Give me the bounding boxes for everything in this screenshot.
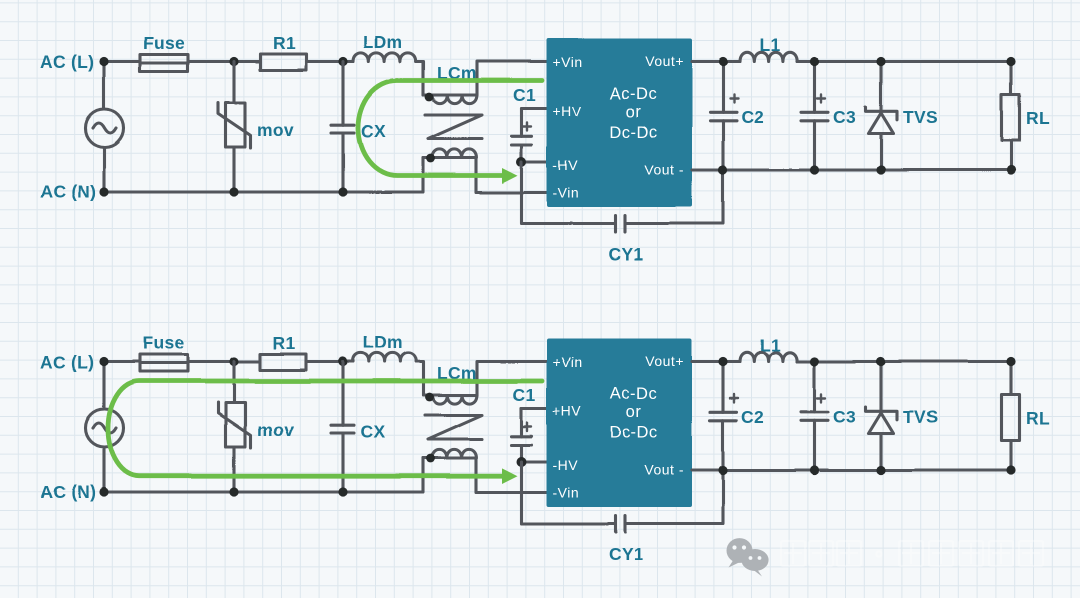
svg-text:Vout -: Vout - <box>644 462 684 478</box>
svg-text:CX: CX <box>361 422 386 442</box>
TVS diode (bottom) <box>866 362 898 471</box>
capacitor CX (top) <box>331 62 354 193</box>
node: C1 bottom / -HV (top) <box>517 157 527 167</box>
node: C1 bottom / -HV (bottom) <box>517 457 527 467</box>
AC source V1 (bottom) <box>86 362 124 493</box>
svg-text:Vout+: Vout+ <box>645 353 684 369</box>
wire AC(L) rail: source to fuse (bottom) <box>104 360 140 363</box>
resistor RL (bottom) <box>1002 362 1020 471</box>
svg-text:-Vin: -Vin <box>553 485 580 501</box>
capacitor C1 (top) <box>512 109 532 163</box>
node: Vout+ rail x=1011 (top) <box>1006 57 1015 66</box>
wire Vout+ rail (top) <box>692 60 1011 63</box>
svg-text:R1: R1 <box>273 333 296 353</box>
svg-text:Ac-Dc: Ac-Dc <box>610 85 657 103</box>
svg-text:+Vin: +Vin <box>553 54 583 70</box>
node: CX bottom / N rail (bottom) <box>338 487 347 496</box>
wire Vout- rail (top) <box>692 168 1011 171</box>
inductor LDM (bottom) <box>353 353 416 362</box>
node: L rail / MOV top (bottom) <box>229 357 238 366</box>
svg-text:TVS: TVS <box>903 107 938 127</box>
svg-text:RL: RL <box>1026 108 1050 128</box>
AC source V1 (top) <box>86 62 124 193</box>
svg-text:TVS: TVS <box>903 407 938 427</box>
svg-text:+HV: +HV <box>553 103 582 119</box>
LCM core (top) <box>425 115 482 139</box>
wire LDM to LCM top winding (bottom) <box>416 362 423 396</box>
wire AC(N) rail (top) <box>104 158 423 192</box>
fuse Fuse (bottom) <box>140 355 188 372</box>
svg-text:LDm: LDm <box>363 32 403 52</box>
node: Vout+ rail x=814.5 (bottom) <box>810 357 819 366</box>
wire LCM bottom winding to -Vin (top) <box>476 158 547 193</box>
LCM core (bottom) <box>425 415 482 439</box>
svg-text:L1: L1 <box>759 335 780 355</box>
node: L rail / MOV top (top) <box>229 57 238 66</box>
fuse Fuse (top) <box>140 55 188 72</box>
node: source / L rail (bottom) <box>99 357 108 366</box>
wire LCM top winding to +Vin (bottom) <box>477 362 547 396</box>
svg-text:Fuse: Fuse <box>143 33 185 53</box>
common-mode choke LCM : top winding (bottom) <box>424 393 478 404</box>
node: Vout- rail x=1011 (top) <box>1006 165 1015 174</box>
svg-text:C1: C1 <box>513 85 536 105</box>
capacitor C2 (bottom) <box>710 362 738 471</box>
svg-text:+HV: +HV <box>553 403 582 419</box>
common-mode choke LCM : bottom winding (top) <box>423 149 476 163</box>
svg-text:-HV: -HV <box>553 457 579 473</box>
resistor R1 (top) <box>260 54 306 70</box>
node: Vout+ rail x=814.5 (top) <box>810 57 819 66</box>
svg-text:Dc-Dc: Dc-Dc <box>609 124 657 142</box>
wire Vout- rail (bottom) <box>692 468 1011 471</box>
svg-text:AC (L): AC (L) <box>40 352 94 372</box>
wire R1 to LDM (bottom) <box>306 360 353 363</box>
wire C1 top to +HV (top) <box>522 107 547 110</box>
svg-text:mov: mov <box>257 120 294 140</box>
inductor L1 (top) <box>740 52 797 61</box>
svg-text:AC (L): AC (L) <box>40 52 94 72</box>
node: Vout- rail x=723 (bottom) <box>718 465 727 474</box>
svg-text:R1: R1 <box>273 33 296 53</box>
wire Vout+ rail (bottom) <box>692 360 1011 363</box>
node: CX bottom / N rail (top) <box>338 187 347 196</box>
svg-text:C1: C1 <box>513 385 536 405</box>
node: L rail / CX top (top) <box>338 57 347 66</box>
wire fuse to R1 with MOV tap (top) <box>188 60 260 63</box>
node: source / N rail (top) <box>99 187 108 196</box>
svg-text:CX: CX <box>361 122 386 142</box>
svg-text:Vout+: Vout+ <box>645 53 684 69</box>
green arrowhead (top circuit) <box>502 168 518 184</box>
common-mode choke LCM : top winding (top) <box>424 93 478 104</box>
svg-text:CY1: CY1 <box>609 544 644 564</box>
node: Vout- rail x=723 (top) <box>718 165 727 174</box>
svg-text:AC (N): AC (N) <box>40 482 96 502</box>
wire -HV node to block (top) <box>522 160 547 163</box>
svg-text:-HV: -HV <box>553 157 579 173</box>
node: Vout+ rail x=881 (top) <box>876 57 885 66</box>
svg-text:RL: RL <box>1026 408 1050 428</box>
svg-text:L1: L1 <box>759 35 780 55</box>
svg-text:C2: C2 <box>741 107 764 127</box>
resistor RL (top) <box>1002 62 1020 171</box>
watermark WeChat icon <box>727 538 769 576</box>
wire fuse to R1 with MOV tap (bottom) <box>188 360 260 363</box>
green arrowhead (bottom circuit) <box>502 468 518 484</box>
node: source / L rail (top) <box>99 57 108 66</box>
svg-text:-Vin: -Vin <box>553 185 580 201</box>
svg-text:C3: C3 <box>833 107 856 127</box>
svg-text:mov: mov <box>257 420 294 440</box>
svg-text:CY1: CY1 <box>609 244 644 264</box>
capacitor C3 (top) <box>801 62 828 171</box>
svg-text:Vout -: Vout - <box>644 162 684 178</box>
differential-mode current path (green, top circuit) <box>358 81 542 176</box>
node: Vout+ rail x=1011 (bottom) <box>1006 357 1015 366</box>
wire LCM bottom winding to -Vin (bottom) <box>476 458 547 493</box>
node: Vout- rail x=814.5 (bottom) <box>810 465 819 474</box>
wire LCM top winding to +Vin (top) <box>477 62 547 96</box>
svg-text:AC (N): AC (N) <box>40 182 96 202</box>
svg-text:Ac-Dc: Ac-Dc <box>610 385 657 403</box>
svg-text:or: or <box>626 103 642 121</box>
svg-text:Dc-Dc: Dc-Dc <box>609 424 657 442</box>
varistor MOV (bottom) <box>218 362 251 493</box>
node: Vout+ rail x=723 (top) <box>718 57 727 66</box>
svg-text:LDm: LDm <box>363 332 403 352</box>
svg-text:or: or <box>626 403 642 421</box>
node: Vout+ rail x=881 (bottom) <box>876 357 885 366</box>
node: MOV bottom / N rail (bottom) <box>229 487 238 496</box>
inductor L1 (bottom) <box>740 352 797 361</box>
TVS diode (top) <box>866 62 898 171</box>
node: L rail / CX top (bottom) <box>338 357 347 366</box>
capacitor C1 (bottom) <box>512 409 532 463</box>
node: Vout+ rail x=723 (bottom) <box>718 357 727 366</box>
node: Vout- rail x=1011 (bottom) <box>1006 465 1015 474</box>
capacitor CY1 (top) <box>522 162 724 232</box>
node: Vout- rail x=881 (bottom) <box>876 465 885 474</box>
svg-text:Fuse: Fuse <box>143 333 185 353</box>
svg-text:C2: C2 <box>741 407 764 427</box>
node: source / N rail (bottom) <box>99 487 108 496</box>
node: MOV bottom / N rail (top) <box>229 187 238 196</box>
wire LDM to LCM top winding (top) <box>416 62 423 96</box>
capacitor C2 (top) <box>710 62 738 171</box>
wire R1 to LDM (top) <box>306 60 353 63</box>
varistor MOV (top) <box>218 62 251 193</box>
converter module Ac-Dc or Dc-Dc (bottom) <box>547 339 693 508</box>
common-mode current path (green, bottom circuit) <box>108 381 542 476</box>
converter module Ac-Dc or Dc-Dc (top) <box>547 39 693 208</box>
wire AC(L) rail: source to fuse (top) <box>104 60 140 63</box>
capacitor C3 (bottom) <box>801 362 828 471</box>
common-mode choke LCM : bottom winding (bottom) <box>423 449 476 463</box>
resistor R1 (bottom) <box>260 354 306 370</box>
wire C1 top to +HV (bottom) <box>522 407 547 410</box>
wire AC(N) rail (bottom) <box>104 458 423 492</box>
svg-text:C3: C3 <box>833 407 856 427</box>
svg-text:+Vin: +Vin <box>553 354 583 370</box>
watermark text 公众号·硬件攻城狮 (faint) <box>781 541 1043 566</box>
node: Vout- rail x=814.5 (top) <box>810 165 819 174</box>
capacitor CY1 (bottom) <box>522 462 724 532</box>
inductor LDM (top) <box>353 53 416 62</box>
capacitor CX (bottom) <box>331 362 354 493</box>
wire -HV node to block (bottom) <box>522 460 547 463</box>
node: Vout- rail x=881 (top) <box>876 165 885 174</box>
